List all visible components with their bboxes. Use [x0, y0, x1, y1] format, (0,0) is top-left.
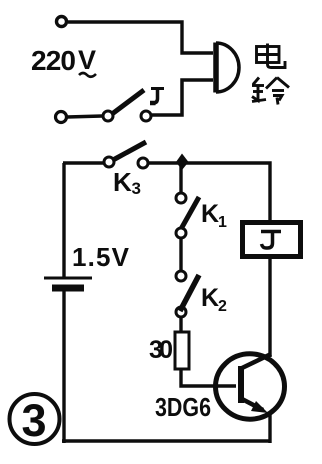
wire pole to terminal — [67, 116, 102, 117]
switch J blade — [112, 90, 144, 114]
wire junction to right corner and down to relay J coil — [180, 163, 270, 221]
label 电铃 (electric bell) drawn strokes — [252, 44, 289, 105]
wire resistor to transistor base — [181, 369, 236, 386]
transistor circle — [216, 354, 285, 419]
wire relay coil bottom to collector — [268, 258, 271, 357]
switch K3 pole contact — [104, 157, 114, 167]
relay coil J (box) — [243, 223, 301, 257]
wire K1 to K2 — [179, 238, 182, 271]
wire bottom rail — [62, 439, 271, 443]
resistor R 30 ohm (box) — [175, 332, 189, 369]
wire from top terminal to bell top lead — [68, 22, 213, 53]
svg-text:V: V — [78, 45, 96, 75]
switch K2 bottom contact — [176, 307, 186, 317]
switch K3 blade — [113, 142, 146, 160]
switch J (relay contact), right fixed contact — [141, 111, 151, 121]
电 — [257, 47, 280, 63]
wire K3 to junction — [148, 161, 180, 164]
svg-text:3: 3 — [22, 395, 47, 446]
wire bell bottom lead to switch J — [152, 80, 213, 115]
terminal bottom-left of 220V supply — [56, 112, 67, 123]
switch K1 top contact — [176, 193, 186, 203]
label K2 — [201, 284, 227, 315]
bell B (electric bell symbol) — [216, 43, 239, 93]
figure number 3 (circled) — [10, 394, 60, 444]
battery short thick plate — [52, 285, 84, 292]
switch K1 blade — [181, 197, 199, 229]
svg-text:2: 2 — [218, 298, 227, 315]
label J (top switch) — [150, 89, 164, 104]
switch K2 blade — [180, 275, 199, 311]
svg-text:K: K — [201, 284, 219, 312]
terminal top-left of 220V supply — [57, 17, 67, 27]
switch K2 top contact — [176, 271, 186, 281]
wire junction down to K1 — [179, 163, 182, 193]
svg-text:220: 220 — [31, 45, 76, 76]
wire emitter down to bottom rail — [268, 415, 271, 443]
wire K2 to resistor R — [179, 317, 182, 332]
base bar — [238, 366, 244, 403]
switch K1 bottom contact — [176, 228, 186, 238]
label K1 — [201, 200, 227, 231]
铃 — [253, 78, 259, 85]
switch J pole contact — [103, 111, 113, 121]
emitter stroke with arrow — [242, 399, 263, 410]
svg-text:1.5V: 1.5V — [72, 242, 130, 272]
collector stroke — [242, 354, 271, 368]
label K3 — [113, 167, 141, 198]
wire battery negative down to bottom rail — [62, 291, 65, 443]
svg-text:K: K — [201, 200, 219, 228]
transistor Q 3DG6 (NPN) — [216, 354, 285, 419]
junction node (dot) — [176, 154, 189, 171]
label 220V with ~ — [31, 45, 96, 76]
svg-text:1: 1 — [218, 214, 227, 231]
svg-text:30: 30 — [149, 336, 173, 364]
wire left vertical from top-left corner down to battery — [62, 163, 65, 278]
wire top rail left segment — [63, 161, 104, 164]
svg-text:3DG6: 3DG6 — [155, 392, 211, 422]
svg-text:3: 3 — [132, 179, 141, 198]
svg-text:K: K — [113, 167, 132, 197]
label J (relay coil) — [261, 232, 281, 249]
battery BT 1.5V : long plate — [44, 277, 92, 280]
switch K3 fixed contact — [138, 158, 148, 168]
